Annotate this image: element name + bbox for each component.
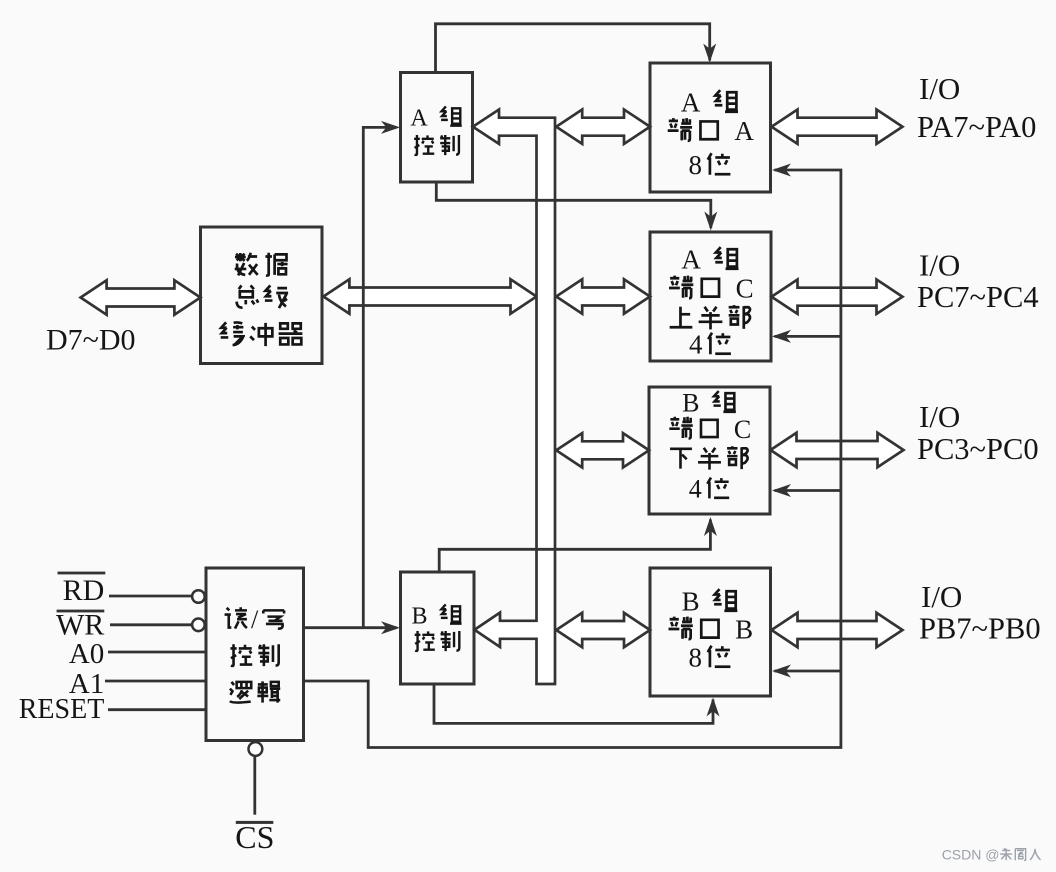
- feedback branch into port C upper: [775, 335, 841, 338]
- svg-text:PA7~PA0: PA7~PA0: [917, 110, 1036, 144]
- feedback branch into port C lower: [775, 489, 841, 492]
- arrow internal bus to port C upper: [556, 279, 650, 313]
- port C lower box: [649, 387, 770, 514]
- I/O arrow PA7~PA0: [772, 110, 903, 144]
- arrow internal bus to port B: [556, 613, 650, 647]
- r/w logic text line2: [230, 644, 252, 666]
- svg-text:PB7~PB0: PB7~PB0: [919, 612, 1041, 646]
- port C upper text line2: [669, 276, 693, 299]
- wire group A control bottom to port C upper top: [436, 182, 711, 228]
- WR overline: [57, 610, 105, 613]
- CS input wire: [253, 756, 256, 815]
- I/O arrow PC7~PC4: [772, 280, 903, 314]
- RD inversion bubble: [192, 590, 205, 603]
- data bus buffer box: [201, 227, 323, 364]
- port C upper box: [650, 232, 771, 361]
- group B control text line2: [415, 631, 435, 651]
- RESET input wire: [108, 708, 206, 711]
- port B box: [650, 568, 771, 696]
- CS inversion bubble: [249, 742, 263, 756]
- svg-text:I/O: I/O: [919, 248, 960, 283]
- svg-text:B: B: [682, 587, 700, 617]
- buffer text line1 shuju: [235, 253, 258, 276]
- svg-text:A: A: [681, 88, 701, 118]
- wire group B control bottom to port B bottom: [434, 684, 713, 723]
- svg-text:CS: CS: [235, 819, 274, 855]
- svg-text:A: A: [681, 244, 701, 274]
- svg-text:4: 4: [689, 329, 703, 359]
- svg-text:A: A: [734, 116, 754, 146]
- CS overline: [236, 821, 273, 824]
- I/O arrow PB7~PB0: [772, 613, 903, 647]
- svg-text:8: 8: [688, 643, 702, 673]
- svg-text:I/O: I/O: [921, 579, 962, 614]
- wire r/w logic to group B control: [303, 626, 396, 629]
- svg-text:RESET: RESET: [19, 694, 105, 725]
- svg-text:WR: WR: [56, 608, 104, 641]
- svg-text:I/O: I/O: [919, 71, 960, 106]
- port C upper text line3: [670, 307, 693, 328]
- I/O arrow PC3~PC0: [771, 433, 904, 467]
- port C lower text line3: [670, 449, 692, 469]
- svg-text:B: B: [682, 389, 699, 418]
- wire group A control top to port A top: [436, 24, 710, 73]
- group A control text line2: [414, 135, 434, 155]
- svg-text:4: 4: [689, 475, 702, 504]
- svg-text:RD: RD: [63, 574, 105, 607]
- port A box: [650, 63, 771, 192]
- A0 input wire: [108, 651, 206, 654]
- svg-text:8: 8: [688, 150, 702, 180]
- svg-text:I/O: I/O: [919, 399, 960, 434]
- arrow data-bus-buffer to internal bus: [323, 279, 536, 313]
- svg-text:B: B: [411, 603, 427, 629]
- svg-text:PC7~PC4: PC7~PC4: [917, 280, 1039, 314]
- group B control box: [401, 572, 475, 684]
- group A control box: [401, 73, 473, 183]
- wire group B control top to port C lower bottom: [439, 520, 710, 573]
- WR input wire: [110, 623, 192, 626]
- feedback branch into port B: [775, 670, 841, 673]
- svg-text:A0: A0: [69, 638, 104, 670]
- RD input wire: [109, 595, 192, 598]
- external data-bus arrow D7~D0: [81, 280, 201, 314]
- WR inversion bubble: [192, 619, 205, 632]
- svg-text:C: C: [734, 415, 751, 444]
- internal data bus with arrows into group A control and group B control: [473, 110, 555, 685]
- port B text line2: [669, 617, 693, 640]
- r/w logic text line1: [225, 607, 247, 628]
- read/write control logic box: [206, 568, 304, 741]
- port C lower text line2: [669, 417, 692, 439]
- svg-text:B: B: [735, 615, 753, 645]
- feedback wire from r/w logic around right side: [303, 170, 841, 748]
- buffer text line2 zongxian: [237, 285, 259, 307]
- wire branch up to group A control: [363, 127, 396, 627]
- A1 input wire: [105, 680, 206, 683]
- svg-text:PC3~PC0: PC3~PC0: [917, 432, 1039, 466]
- svg-text:A: A: [410, 105, 428, 131]
- arrow internal bus to port C lower: [556, 433, 649, 467]
- svg-text:C: C: [736, 273, 754, 303]
- port A text line2: [668, 118, 692, 141]
- svg-text:CSDN @: CSDN @: [942, 847, 1000, 863]
- svg-text:D7~D0: D7~D0: [46, 324, 136, 357]
- r/w logic text line3: [230, 682, 251, 703]
- buffer text line3 huanchongqi: [221, 322, 244, 345]
- RD overline: [58, 572, 106, 575]
- arrow internal bus to port A: [556, 110, 650, 144]
- svg-text:/: /: [251, 605, 259, 634]
